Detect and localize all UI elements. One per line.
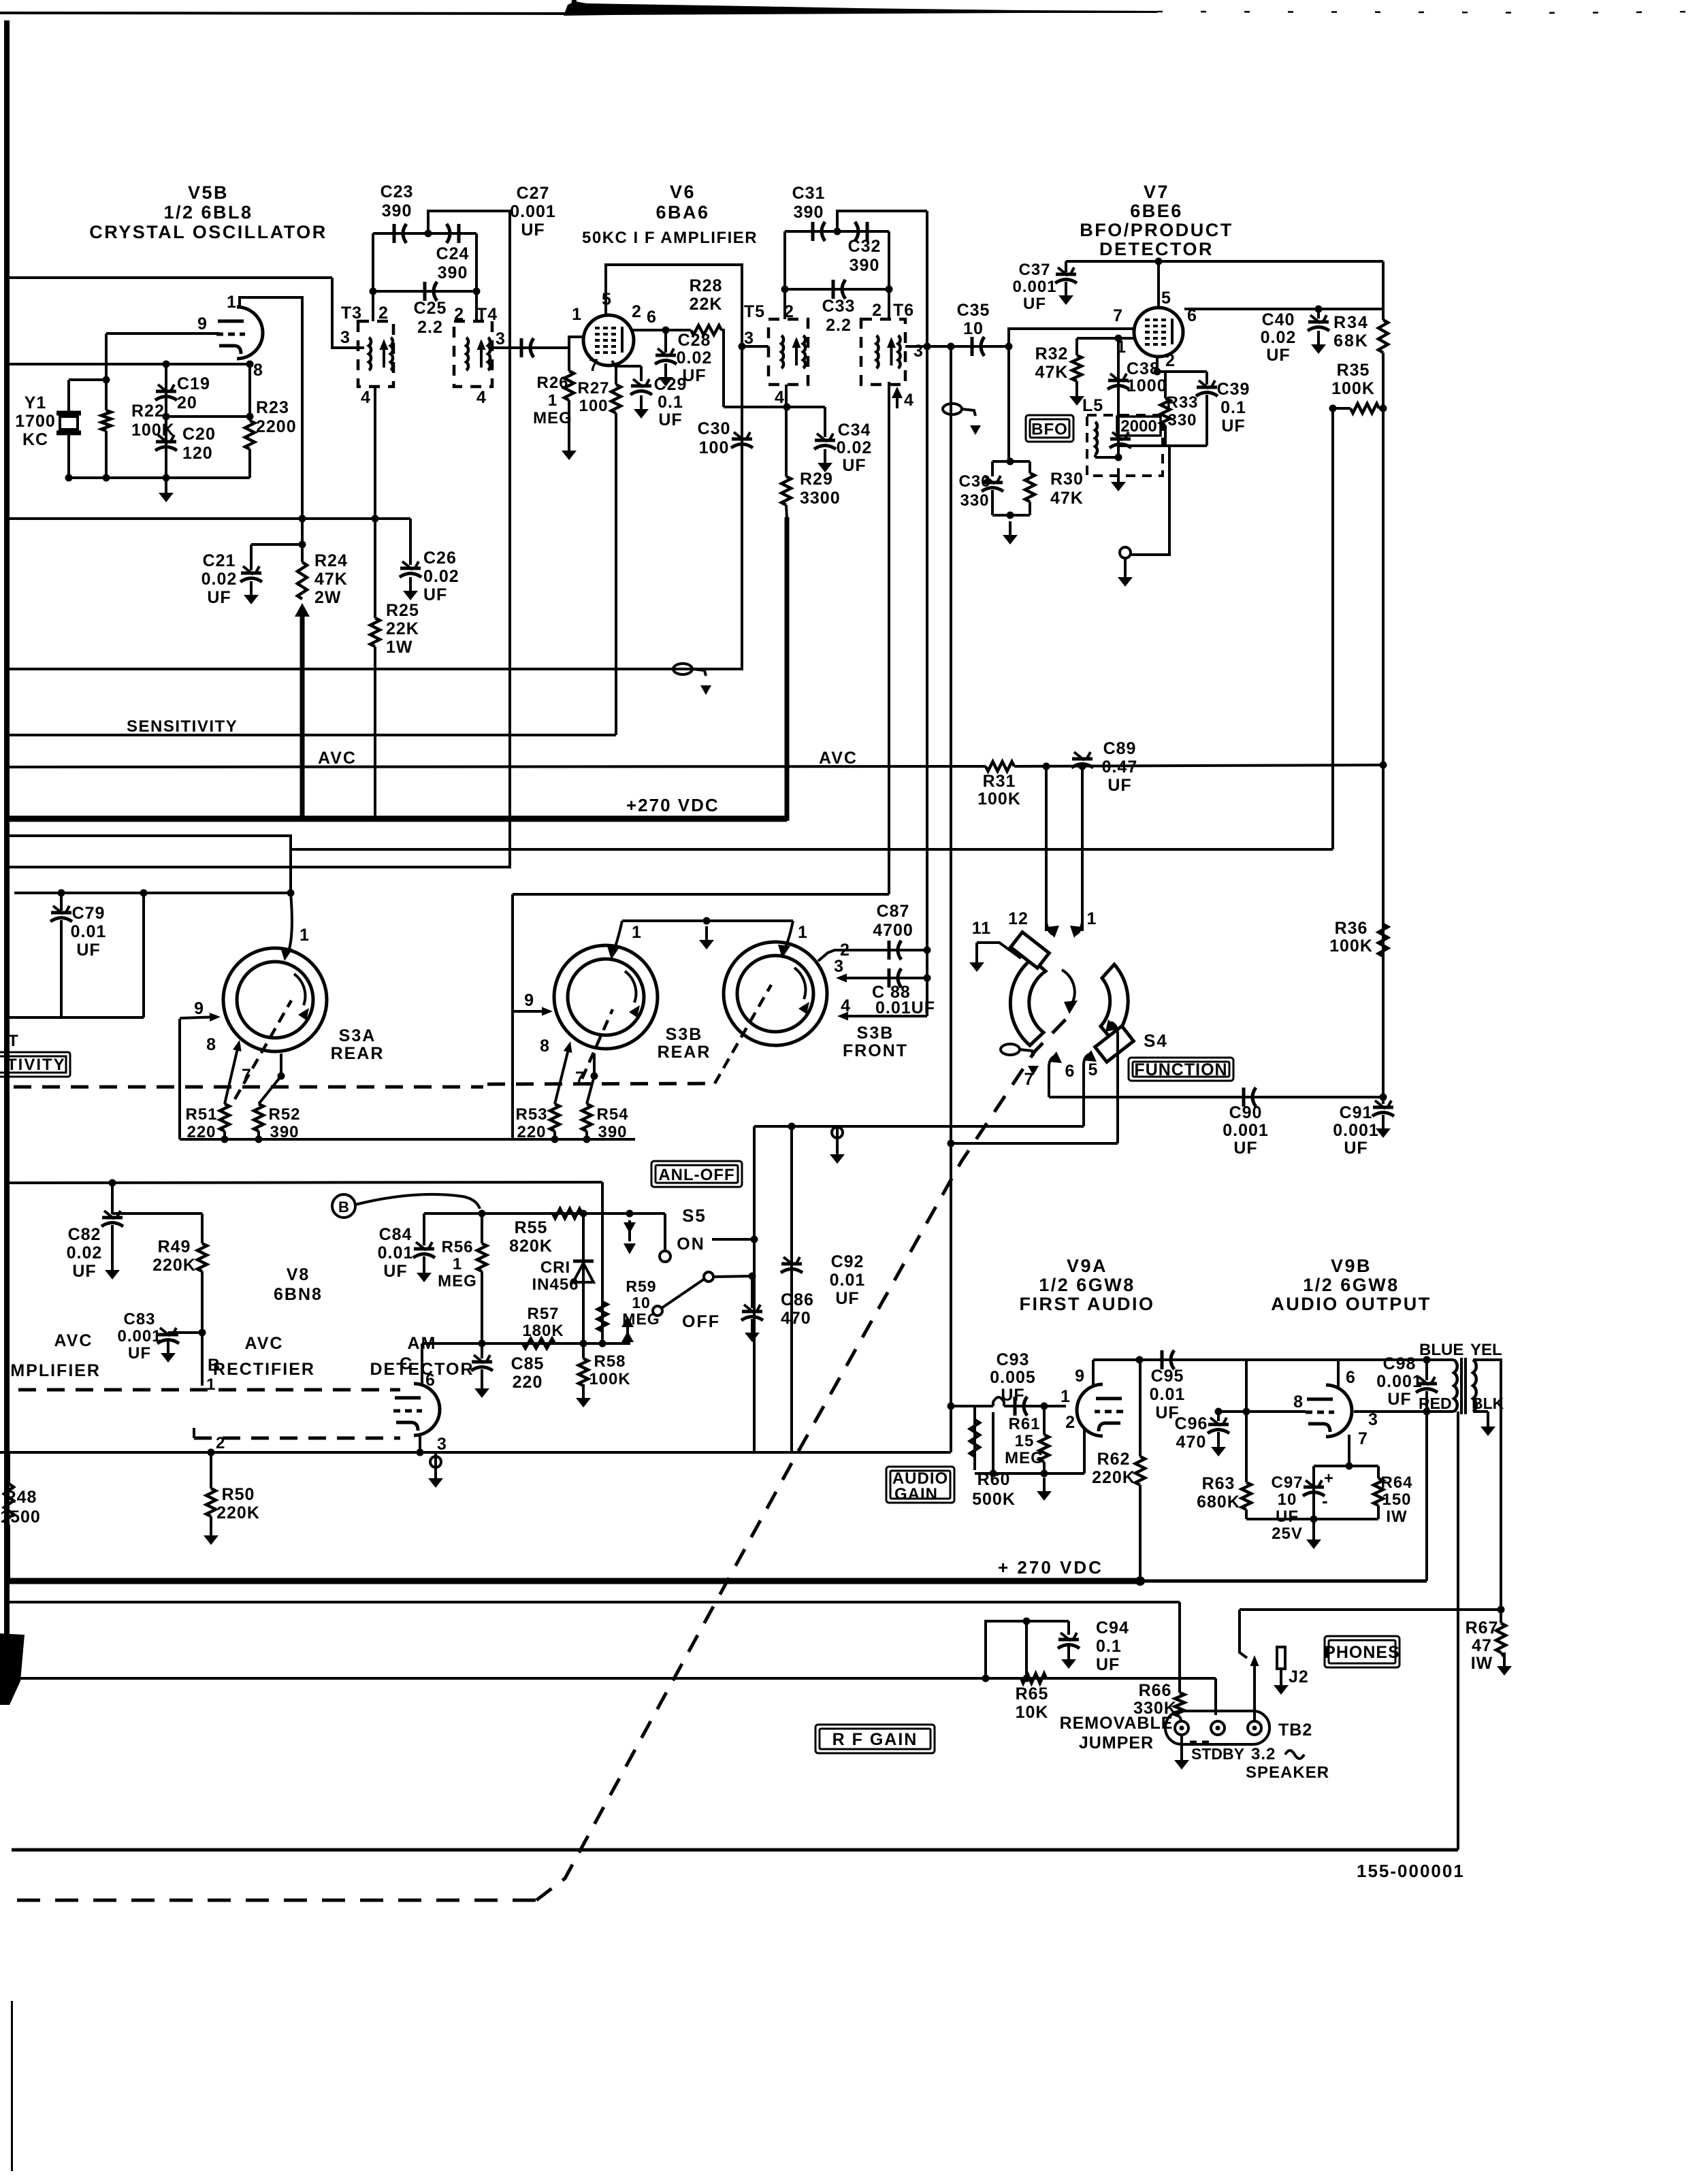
wire to C82 xyxy=(111,1183,114,1214)
resistor R50 xyxy=(206,1488,216,1516)
wire switch return rail xyxy=(180,1138,635,1141)
wire B+ riser xyxy=(785,517,790,821)
tube V8 xyxy=(393,1384,440,1435)
svg-text:CRI: CRI xyxy=(540,1258,570,1277)
svg-text:C31: C31 xyxy=(792,184,826,203)
ground xyxy=(428,1465,443,1488)
svg-text:B: B xyxy=(338,1199,349,1216)
ground xyxy=(1174,1746,1189,1770)
wire r30 lead2 xyxy=(1029,502,1031,515)
svg-text:7: 7 xyxy=(1358,1429,1368,1448)
switch S3A xyxy=(223,948,327,1052)
label box ANL-OFF xyxy=(651,1161,742,1187)
contact 7 arrowhead xyxy=(1048,1052,1062,1063)
svg-text:100K: 100K xyxy=(1329,936,1373,956)
svg-text:C84: C84 xyxy=(379,1225,412,1244)
wire junction line B xyxy=(291,848,1333,851)
svg-text:220K: 220K xyxy=(152,1256,196,1275)
wire crystal lead low xyxy=(67,435,70,478)
node xyxy=(246,413,254,421)
capacitor C93 xyxy=(1015,1397,1027,1416)
capacitor C95 xyxy=(1162,1350,1174,1369)
ground xyxy=(161,1339,176,1363)
svg-text:68K: 68K xyxy=(1333,331,1369,351)
wire c36 lead2 xyxy=(991,490,994,515)
wire mechanical link dashed xyxy=(14,1086,483,1089)
ground R67 xyxy=(1497,1652,1512,1676)
T3 primary xyxy=(369,338,371,370)
scan artifact: left bottom thin line xyxy=(11,2001,13,2171)
label R64 xyxy=(1380,1473,1412,1526)
wire standby line xyxy=(9,1601,1180,1603)
ground xyxy=(818,449,832,472)
tube V6 xyxy=(583,315,634,365)
svg-text:ANL-OFF: ANL-OFF xyxy=(658,1166,734,1184)
svg-text:C32: C32 xyxy=(848,237,881,256)
wire to T6 pin2 xyxy=(888,231,890,319)
S5 blade xyxy=(653,1272,713,1316)
resistor R66 xyxy=(1175,1693,1184,1716)
svg-text:V7: V7 xyxy=(1144,182,1169,202)
resistor R67 xyxy=(1496,1623,1506,1652)
label removable jumper xyxy=(1060,1714,1174,1753)
wire C94 top xyxy=(986,1621,1069,1678)
tap S4 xyxy=(1001,1044,1039,1075)
svg-text:R55: R55 xyxy=(515,1218,548,1237)
label C31 xyxy=(792,184,826,222)
ground xyxy=(969,949,984,972)
wire R22 to gnd rail xyxy=(105,431,108,478)
label Y1 xyxy=(15,393,56,449)
label C36 xyxy=(958,472,990,510)
wire grid to R22 xyxy=(105,333,108,410)
jack J2 xyxy=(1277,1647,1285,1676)
svg-text:0.1: 0.1 xyxy=(1220,398,1246,417)
node xyxy=(580,1210,587,1218)
node xyxy=(924,343,931,351)
switch S3B FRONT xyxy=(724,942,827,1045)
svg-text:100K: 100K xyxy=(131,421,175,440)
svg-text:S5: S5 xyxy=(682,1205,707,1226)
label R66 xyxy=(1133,1681,1177,1718)
svg-text:100K: 100K xyxy=(589,1370,630,1388)
capacitor C28 xyxy=(655,348,677,364)
wire S5 node xyxy=(712,1238,754,1241)
svg-text:1W: 1W xyxy=(386,638,413,657)
wire phones line down xyxy=(1240,1610,1247,1658)
wire AVC dashed line 2 xyxy=(194,1437,400,1440)
svg-text:R30: R30 xyxy=(1050,470,1084,489)
wire node B xyxy=(201,1333,204,1386)
wire R60 body lead xyxy=(973,1410,976,1470)
wire c94 riser xyxy=(1025,1621,1028,1678)
label V6 title xyxy=(656,182,709,223)
wire to C36 R30 xyxy=(1007,346,1010,461)
svg-text:7: 7 xyxy=(589,356,599,375)
label R28 xyxy=(690,276,723,314)
wire to C37 xyxy=(1065,261,1067,272)
wire R32 low xyxy=(1075,381,1078,393)
wire R35 lead2 xyxy=(1379,407,1383,410)
ground xyxy=(1311,331,1326,354)
S3A pointer xyxy=(235,1000,291,1099)
ground xyxy=(474,1375,489,1398)
node xyxy=(1041,1403,1048,1410)
svg-text:+: + xyxy=(1324,1469,1334,1488)
wire to S3A area xyxy=(142,893,145,1017)
resistor R57 xyxy=(523,1339,555,1348)
svg-text:2: 2 xyxy=(216,1434,225,1452)
crystal Y1 xyxy=(56,413,81,433)
node xyxy=(417,1449,424,1456)
label R23 xyxy=(256,398,297,436)
svg-text:MEG: MEG xyxy=(1005,1449,1044,1467)
svg-text:47K: 47K xyxy=(1050,489,1084,508)
resistor R27 xyxy=(611,385,621,413)
svg-text:22K: 22K xyxy=(690,295,723,314)
wire C24 tap long run xyxy=(7,211,510,867)
node xyxy=(479,1340,486,1348)
transformer T3 xyxy=(358,321,393,387)
resistor R59 xyxy=(598,1302,607,1331)
svg-text:C28: C28 xyxy=(678,331,711,350)
diode CR1 xyxy=(573,1213,594,1343)
svg-text:UF: UF xyxy=(842,456,866,475)
wire R26 low xyxy=(568,400,570,441)
wire C19 C20 branch xyxy=(165,364,167,478)
svg-text:CRYSTAL OSCILLATOR: CRYSTAL OSCILLATOR xyxy=(89,222,327,242)
capacitor C90 xyxy=(1244,1088,1256,1107)
wire osc ground rail xyxy=(69,476,250,479)
wire to R59 xyxy=(601,1182,604,1343)
wire link dashed bottom xyxy=(17,1899,536,1902)
wire to C21 xyxy=(250,544,253,570)
svg-text:REAR: REAR xyxy=(331,1044,385,1063)
label box SELECTIVITY (cut) xyxy=(0,1052,70,1077)
svg-text:100K: 100K xyxy=(1331,379,1375,398)
node xyxy=(1007,458,1014,466)
label box AUDIO GAIN xyxy=(886,1467,954,1503)
wire cathode rail xyxy=(5,517,410,520)
label R58 xyxy=(589,1352,630,1388)
wire to C38 L5 xyxy=(1117,338,1120,457)
label C95 xyxy=(1150,1367,1186,1422)
wire block bottom xyxy=(992,514,1030,517)
wire contact 3 xyxy=(836,974,927,983)
svg-text:120: 120 xyxy=(182,444,213,463)
svg-text:R F GAIN: R F GAIN xyxy=(832,1730,918,1749)
label C84 xyxy=(378,1225,414,1281)
tap test point xyxy=(673,664,711,695)
svg-text:2000: 2000 xyxy=(1120,417,1156,436)
svg-text:180K: 180K xyxy=(522,1322,564,1340)
switch S3B REAR xyxy=(554,945,658,1049)
svg-text:220: 220 xyxy=(187,1123,216,1141)
wire C25 line xyxy=(373,290,476,293)
svg-text:S3B: S3B xyxy=(857,1024,894,1043)
svg-text:MEG: MEG xyxy=(438,1272,477,1290)
label C37 xyxy=(1012,261,1056,313)
svg-text:25V: 25V xyxy=(1272,1525,1303,1543)
scan artifact: left edge bar xyxy=(4,20,10,1681)
contact 1 arrowhead xyxy=(778,945,790,958)
wire contact 6 hook xyxy=(1084,1054,1089,1126)
wire 9 arrow S3A xyxy=(180,1013,221,1022)
T5 primary xyxy=(781,336,783,368)
node xyxy=(662,327,670,334)
svg-text:470: 470 xyxy=(781,1309,811,1328)
label R54 xyxy=(596,1105,628,1141)
label C32 xyxy=(848,237,881,275)
svg-text:8: 8 xyxy=(253,361,263,380)
wire R35 to junction line xyxy=(1331,408,1334,849)
core xyxy=(1460,1358,1463,1414)
wire V8 cathode xyxy=(419,1435,421,1452)
svg-text:T5: T5 xyxy=(744,302,765,321)
svg-text:REMOVABLE: REMOVABLE xyxy=(1060,1714,1174,1733)
svg-text:UF: UF xyxy=(521,221,545,240)
svg-text:UF: UF xyxy=(1023,295,1046,313)
svg-text:C21: C21 xyxy=(203,551,236,570)
wire to C29 xyxy=(616,365,641,368)
wire pin8 rail xyxy=(5,363,248,365)
svg-text:50KC I F AMPLIFIER: 50KC I F AMPLIFIER xyxy=(582,229,758,247)
svg-text:100: 100 xyxy=(579,397,608,415)
capacitor C37 xyxy=(1055,267,1077,283)
capacitor C82 xyxy=(101,1211,123,1226)
wire BLK xyxy=(1473,1410,1488,1413)
wire r63 low xyxy=(1245,1510,1248,1519)
svg-text:0.001: 0.001 xyxy=(1223,1121,1269,1140)
ground xyxy=(1069,382,1084,406)
svg-text:0.02: 0.02 xyxy=(67,1243,103,1262)
wire V7 pin6 rail xyxy=(1184,308,1383,310)
label C29 xyxy=(654,375,687,429)
svg-text:R34: R34 xyxy=(1333,313,1369,332)
svg-text:8: 8 xyxy=(206,1035,216,1054)
label box PHONES xyxy=(1324,1636,1400,1667)
wire to T4 pin 2 xyxy=(475,233,478,321)
label R25 xyxy=(386,601,419,657)
resistor R34 xyxy=(1378,320,1388,353)
capacitor C38 xyxy=(1107,374,1129,389)
wire tank return xyxy=(1131,446,1169,555)
label C40 xyxy=(1261,310,1297,365)
svg-text:0.01: 0.01 xyxy=(1150,1385,1186,1404)
T3 tuning arrow xyxy=(380,339,389,368)
svg-text:R59: R59 xyxy=(626,1277,656,1295)
svg-text:R64: R64 xyxy=(1380,1473,1412,1492)
label C94 xyxy=(1096,1618,1129,1674)
wire SENSITIVITY line xyxy=(5,734,616,736)
wire r30 lead xyxy=(1029,461,1031,473)
svg-text:0.01: 0.01 xyxy=(378,1243,414,1262)
svg-text:AVC: AVC xyxy=(54,1331,93,1350)
node xyxy=(1155,258,1163,265)
capacitor C86 xyxy=(741,1305,763,1320)
resistor R58 xyxy=(579,1358,588,1386)
wire S4 contact 12 feed xyxy=(1045,766,1048,931)
wire AVC dashed line xyxy=(18,1388,400,1392)
tap ring xyxy=(1120,547,1131,558)
node xyxy=(788,1123,796,1130)
wire r54 low xyxy=(585,1131,588,1139)
wire audio column right xyxy=(950,346,952,1452)
wire to C98 xyxy=(1425,1360,1428,1380)
label AVC RECTIFIER xyxy=(213,1334,315,1379)
node xyxy=(948,1403,955,1410)
label C79 xyxy=(71,904,107,960)
wire TB2 to J2 xyxy=(1250,1655,1259,1721)
wire AVC line xyxy=(5,766,986,767)
node xyxy=(751,1236,758,1243)
wire pin 9 grid xyxy=(106,332,219,335)
S4 wiper arc right xyxy=(1095,964,1134,1062)
wire to C84 xyxy=(423,1213,425,1245)
capacitor C36 xyxy=(982,476,1003,491)
svg-text:6BN8: 6BN8 xyxy=(274,1285,323,1304)
wire c97 gnd lead xyxy=(1312,1519,1315,1530)
wire speaker column xyxy=(1457,1412,1459,1850)
wire RED to bus xyxy=(1425,1412,1428,1581)
wire R24 to bus xyxy=(295,603,310,820)
node xyxy=(886,286,893,293)
resistor R64 xyxy=(1374,1478,1383,1505)
label C39 xyxy=(1217,380,1250,436)
wire T3 pin4 to R25 xyxy=(374,387,376,618)
wire S4 pin6 run xyxy=(754,1125,1084,1128)
wire contact 7 S3B xyxy=(587,1054,594,1104)
label C19 xyxy=(177,374,210,412)
svg-text:C90: C90 xyxy=(1229,1103,1263,1122)
transformer T output xyxy=(1454,1358,1476,1414)
wire V9B cathode xyxy=(1348,1435,1350,1466)
label C92 xyxy=(830,1252,866,1308)
resistor R60 xyxy=(970,1420,980,1456)
wire contact 7 hook xyxy=(1049,1056,1054,1097)
node xyxy=(739,343,746,351)
node xyxy=(626,1210,634,1218)
wire +270 VDC bus xyxy=(5,816,787,822)
svg-text:T6: T6 xyxy=(893,301,914,320)
T6 primary xyxy=(877,336,879,368)
node xyxy=(163,361,170,368)
wire to C39 xyxy=(1206,372,1208,385)
resistor R52 xyxy=(254,1104,263,1131)
svg-text:100K: 100K xyxy=(977,789,1021,809)
capacitor C91 xyxy=(1372,1101,1394,1116)
svg-text:2: 2 xyxy=(378,304,389,323)
svg-text:R31: R31 xyxy=(983,772,1016,791)
ground xyxy=(417,1259,432,1282)
wire c91 lead xyxy=(1382,1097,1385,1104)
svg-text:9: 9 xyxy=(197,314,208,333)
double arrow symbol xyxy=(624,1220,636,1254)
svg-text:R52: R52 xyxy=(268,1105,300,1124)
ground xyxy=(244,581,259,604)
svg-text:6BE6: 6BE6 xyxy=(1130,201,1183,221)
svg-text:10K: 10K xyxy=(1016,1703,1049,1722)
wire C79 line xyxy=(14,892,291,894)
svg-text:AVC: AVC xyxy=(318,749,357,768)
wire V6 cathode xyxy=(612,361,616,385)
svg-text:7: 7 xyxy=(242,1066,252,1085)
svg-text:1: 1 xyxy=(227,293,237,312)
wire pin2 rail xyxy=(1157,370,1207,373)
ground xyxy=(1111,468,1126,491)
wire contact 4 xyxy=(837,1012,927,1021)
wire r61 low xyxy=(1043,1462,1046,1473)
wire cathode drop xyxy=(434,1452,437,1467)
svg-text:PHONES: PHONES xyxy=(1324,1643,1400,1662)
node xyxy=(1380,762,1387,769)
svg-text:C82: C82 xyxy=(68,1225,101,1244)
svg-text:6: 6 xyxy=(425,1371,436,1390)
ground xyxy=(830,1141,845,1164)
svg-text:10: 10 xyxy=(1278,1490,1297,1509)
svg-text:UF: UF xyxy=(1344,1139,1368,1158)
svg-text:4700: 4700 xyxy=(873,921,913,940)
svg-text:C37: C37 xyxy=(1018,261,1050,279)
wire C90 line xyxy=(1049,1096,1383,1098)
svg-text:R23: R23 xyxy=(256,398,289,417)
wire C39 low xyxy=(1206,395,1208,446)
node xyxy=(1007,512,1014,519)
wire C79 lead xyxy=(60,893,63,911)
svg-text:R48: R48 xyxy=(4,1488,37,1507)
svg-text:330: 330 xyxy=(1167,411,1197,429)
svg-text:C79: C79 xyxy=(72,904,106,923)
svg-text:1: 1 xyxy=(798,923,808,942)
label box BFO xyxy=(1026,415,1073,442)
R60 wiper hook xyxy=(993,1397,1004,1406)
S3B REAR pointer xyxy=(582,1009,613,1079)
wire to R60 wiper xyxy=(951,1405,993,1407)
svg-text:C27: C27 xyxy=(517,184,550,203)
wire stub xyxy=(896,398,899,408)
wire bus thin extension xyxy=(1140,1580,1427,1583)
svg-text:4: 4 xyxy=(904,391,914,410)
wire R35 column xyxy=(1382,408,1385,765)
node xyxy=(199,1329,206,1337)
svg-text:AVC: AVC xyxy=(245,1334,284,1353)
wire c84 low xyxy=(423,1256,425,1263)
svg-text:12: 12 xyxy=(1008,909,1029,928)
node xyxy=(299,515,306,523)
svg-text:R56: R56 xyxy=(441,1238,473,1256)
wire +270 bus 2 xyxy=(5,1578,1140,1584)
svg-text:2.2: 2.2 xyxy=(826,316,852,335)
svg-text:7: 7 xyxy=(1024,1070,1035,1089)
node xyxy=(278,1073,285,1080)
wire YEL to phones xyxy=(1473,1360,1501,1610)
svg-text:R54: R54 xyxy=(596,1105,628,1124)
svg-text:6: 6 xyxy=(1346,1368,1356,1387)
resistor R32 xyxy=(1072,355,1082,381)
wire to C28 xyxy=(664,330,667,353)
svg-text:3: 3 xyxy=(744,329,754,348)
svg-text:8: 8 xyxy=(540,1037,550,1056)
label C93 xyxy=(990,1350,1036,1405)
svg-text:C86: C86 xyxy=(781,1290,814,1309)
label R59 xyxy=(622,1277,660,1328)
capacitor C23 xyxy=(394,224,406,243)
wire R57 rail xyxy=(422,1342,630,1345)
label R49 xyxy=(152,1237,196,1275)
svg-text:3: 3 xyxy=(437,1435,447,1454)
node xyxy=(1041,1470,1048,1478)
label AM DETECTOR xyxy=(370,1334,474,1379)
